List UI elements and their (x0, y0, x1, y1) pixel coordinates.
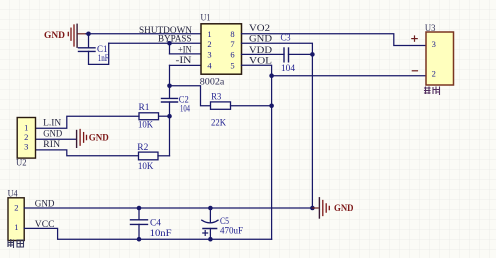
svg-text:8: 8 (230, 29, 234, 39)
svg-text:GND: GND (249, 33, 273, 43)
wire VCC rail from U4 pin 1 (24, 228, 271, 239)
wire U2 pin2 to ground (36, 138, 76, 140)
svg-text:U2: U2 (16, 158, 27, 168)
wire C1 bottom to BYPASS (89, 43, 109, 64)
svg-text:BYPASS: BYPASS (158, 34, 192, 44)
connector U3 (speaker) (426, 32, 454, 85)
node junction VOL/U3 pin2 (269, 73, 274, 78)
svg-text:GND: GND (35, 199, 55, 209)
svg-text:22K: 22K (211, 118, 226, 128)
wire C3 right to GND riser (289, 53, 313, 55)
wire R.IN from U2 pin3 to R2 (36, 150, 139, 156)
node junction -IN/R3 branch (167, 84, 172, 89)
svg-text:RIN: RIN (43, 139, 61, 149)
label speaker (chinese chars) (425, 87, 440, 95)
svg-text:U4: U4 (8, 189, 18, 199)
svg-text:8002a: 8002a (200, 76, 225, 86)
svg-text:3: 3 (24, 142, 28, 152)
svg-text:-IN: -IN (176, 55, 193, 65)
svg-text:GND: GND (43, 128, 62, 138)
node junction C5 top (208, 206, 213, 211)
wire -IN net (pin 4) (170, 64, 202, 66)
ground power port GND (bottom) (312, 198, 354, 218)
wire R2 right (158, 155, 170, 157)
svg-text:+IN: +IN (178, 45, 192, 55)
svg-text:104: 104 (180, 104, 190, 114)
wire SHUTDOWN net (pin 1) (86, 33, 201, 35)
svg-text:2: 2 (24, 132, 28, 142)
wire C1 top stub (88, 34, 90, 48)
pin label + (U3 pin 3) (412, 36, 417, 41)
node junction C5 bottom (208, 237, 213, 242)
svg-text:2: 2 (14, 202, 18, 212)
node junction C4 top (137, 206, 142, 211)
op-amp U1 (8002a audio amplifier) (201, 24, 242, 74)
svg-text:3: 3 (207, 50, 211, 60)
svg-text:R3: R3 (211, 92, 221, 102)
node junction GND/C1 (86, 32, 91, 37)
wire GND rail from U4 pin 2 (24, 207, 312, 209)
ground power port GND (top left) (44, 24, 87, 47)
capacitor C5 (electrolytic) (202, 220, 218, 223)
svg-text:C4: C4 (150, 218, 162, 228)
node junction BYPASS/+IN (167, 41, 172, 46)
svg-text:C3: C3 (281, 33, 291, 43)
resistor R3 (211, 102, 231, 109)
svg-text:GND: GND (44, 30, 66, 40)
wire GND net (pin 7) (242, 43, 313, 208)
svg-text:VCC: VCC (35, 219, 55, 229)
svg-text:R1: R1 (139, 102, 150, 112)
resistor R1 (139, 113, 159, 120)
connector U2 (17, 118, 35, 159)
ground power port GND (at U2) (77, 130, 110, 148)
svg-text:6: 6 (230, 50, 234, 60)
wire branch to R3 (170, 86, 211, 106)
svg-text:104: 104 (281, 63, 296, 73)
svg-text:2: 2 (207, 39, 211, 49)
svg-text:2: 2 (432, 69, 436, 79)
node junction C3/GND riser (310, 52, 315, 57)
node junction GND rail end (310, 206, 315, 211)
capacitor C1 (79, 48, 96, 52)
node junction C4 bottom (137, 237, 142, 242)
wire R1 right (159, 115, 170, 117)
svg-text:1: 1 (24, 122, 28, 132)
wire VO2 net (pin 8) to U3 pin 3 (242, 34, 427, 46)
wire C5 stubs (209, 208, 211, 239)
wire C4 stubs (138, 208, 140, 239)
svg-text:U1: U1 (201, 12, 211, 22)
svg-text:10K: 10K (138, 161, 154, 171)
wire VDD net (pin 6) (242, 53, 285, 55)
svg-text:1nF: 1nF (98, 53, 109, 63)
svg-text:L.IN: L.IN (43, 118, 62, 128)
wire C2 bottom vertical (169, 102, 171, 156)
svg-text:1: 1 (207, 29, 211, 39)
resistor R2 (139, 152, 159, 160)
capacitor C3 (284, 48, 289, 62)
connector U4 (power) (8, 198, 24, 241)
node junction R1/C2 (167, 114, 172, 119)
wire R3 right to VO1 riser (231, 105, 272, 107)
pin label - (U3 pin 2) (412, 70, 417, 72)
capacitor C4 (131, 220, 148, 225)
svg-text:5: 5 (230, 60, 234, 70)
svg-text:GND: GND (334, 203, 354, 213)
wire to U3 pin 2 (272, 75, 426, 77)
node junction VOL/R3 (269, 104, 274, 109)
wire BYPASS to +IN link (169, 43, 171, 54)
svg-text:VO2: VO2 (249, 23, 270, 33)
wire VOL net (pin 5) (242, 65, 272, 239)
capacitor C2 (162, 98, 178, 102)
svg-text:10nF: 10nF (150, 228, 172, 238)
svg-text:1: 1 (14, 222, 18, 232)
svg-text:U3: U3 (425, 23, 436, 33)
label power supply (chinese chars) (8, 240, 24, 248)
svg-text:GND: GND (89, 132, 110, 142)
svg-text:VDD: VDD (249, 45, 273, 55)
wire BYPASS net (pin 2) (109, 42, 201, 44)
svg-text:VOL: VOL (249, 55, 272, 65)
wire -IN vertical down to C2 (169, 65, 171, 98)
wire L.IN from U2 pin1 to R1 (36, 116, 139, 128)
svg-text:10K: 10K (138, 119, 153, 129)
svg-text:7: 7 (230, 39, 234, 49)
wire +IN net (pin 3) (170, 53, 202, 55)
svg-text:470uF: 470uF (220, 226, 243, 236)
svg-text:3: 3 (432, 39, 436, 49)
svg-text:R2: R2 (137, 142, 148, 152)
